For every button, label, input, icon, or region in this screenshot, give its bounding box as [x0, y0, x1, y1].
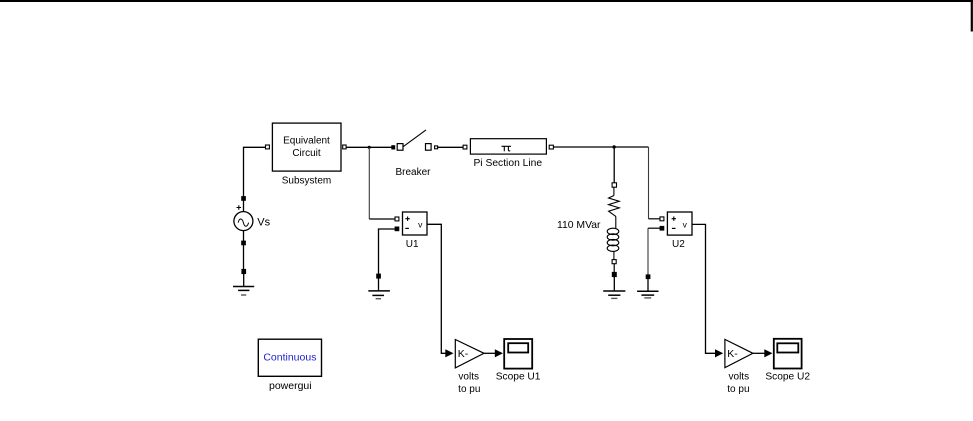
svg-text:powergui: powergui	[269, 380, 312, 392]
svg-text:Equivalent: Equivalent	[283, 136, 330, 147]
svg-text:Breaker: Breaker	[395, 167, 431, 178]
port: Equivalent Circuit right	[343, 145, 346, 149]
scope Scope U2	[765, 339, 810, 383]
wire: Pi Section Line output bus	[554, 146, 649, 148]
breaker Breaker	[392, 130, 438, 178]
svg-text:U1: U1	[406, 239, 419, 250]
svg-text:Subsystem: Subsystem	[282, 176, 331, 187]
ground: below U2 minus	[637, 275, 658, 298]
wire: U2 output down to gain	[692, 224, 715, 353]
svg-text:v: v	[683, 219, 688, 229]
pi section line block	[470, 139, 546, 169]
wire: Vs to Equivalent Circuit input	[244, 147, 266, 198]
scope Scope U1	[496, 339, 541, 383]
voltmeter U1	[395, 212, 427, 250]
wire: bus down to U2 plus input	[648, 147, 650, 219]
wire: U1 output down to gain	[427, 224, 446, 353]
svg-text:volts: volts	[729, 372, 750, 383]
svg-text:Vs: Vs	[257, 217, 270, 229]
wire: U2 minus to ground	[648, 227, 660, 229]
port: Pi Section Line right	[549, 145, 553, 149]
node: junction above 110 MVar branch	[612, 145, 615, 148]
wire: gain to Scope U2	[753, 352, 765, 354]
wire: junction down to U1 plus input	[368, 147, 370, 219]
svg-text:v: v	[418, 219, 423, 229]
wire: RL branch to ground	[613, 264, 615, 273]
arrow into gain volts to pu 1	[445, 349, 453, 357]
svg-text:Scope U2: Scope U2	[765, 372, 810, 383]
svg-text:Scope U1: Scope U1	[496, 372, 541, 383]
wire: Equivalent Circuit output to Breaker	[346, 146, 392, 148]
gain volts to pu (right)	[725, 339, 753, 395]
svg-text:110 MVar: 110 MVar	[557, 220, 601, 231]
voltmeter U2	[660, 212, 692, 250]
svg-text:Circuit: Circuit	[292, 148, 321, 159]
wire: gain to Scope U1	[484, 352, 495, 354]
subsystem Equivalent Circuit	[272, 123, 341, 187]
svg-text:U2: U2	[672, 239, 685, 250]
svg-text:Continuous: Continuous	[263, 352, 316, 364]
series RLC branch 110 MVar	[557, 183, 619, 264]
powergui block	[258, 339, 321, 392]
port: Pi Section Line left	[463, 145, 467, 149]
ground: below 110 MVar branch	[603, 272, 625, 298]
wire: Vs bottom to ground	[243, 245, 245, 269]
svg-text:K-: K-	[458, 348, 469, 360]
ground: below U1	[368, 274, 390, 299]
ground: below Vs	[233, 269, 254, 295]
gain volts to pu (left)	[455, 340, 484, 396]
svg-text:to pu: to pu	[727, 384, 749, 395]
arrow into Scope U1	[495, 349, 503, 357]
svg-text:K-: K-	[727, 348, 738, 360]
svg-text:to pu: to pu	[458, 384, 480, 395]
wire: Breaker to Pi Section Line	[438, 146, 463, 148]
port: Equivalent Circuit left	[266, 145, 270, 149]
wire: U1 minus to ground	[379, 229, 396, 274]
ac source Vs	[234, 197, 271, 245]
node: junction at breaker wire	[368, 146, 371, 149]
svg-text:Pi Section Line: Pi Section Line	[473, 158, 542, 169]
wire: junction down to RL branch	[613, 147, 615, 183]
arrow into Scope U2	[764, 349, 772, 357]
arrow into gain volts to pu 2	[715, 349, 723, 357]
svg-text:volts: volts	[458, 372, 479, 383]
